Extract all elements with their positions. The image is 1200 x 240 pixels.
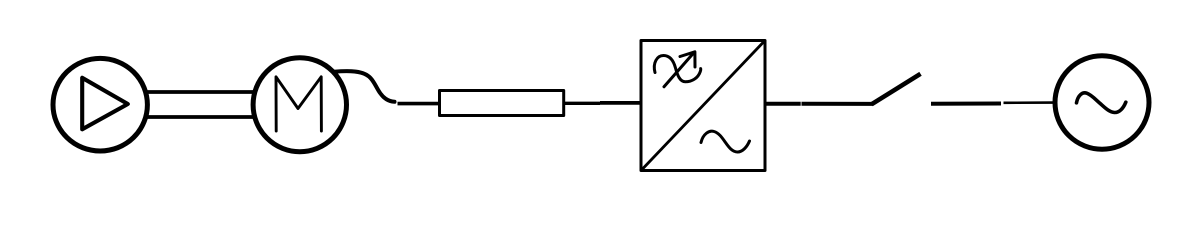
wire segment to converter (600, 101, 641, 105)
wire switch to grid (931, 102, 1001, 106)
wire curved from motor (334, 71, 395, 102)
wire segment (802, 102, 873, 106)
variable frequency arrow shaft (664, 53, 694, 87)
wire segment thin (1004, 101, 1055, 104)
frequency converter box (641, 41, 765, 171)
wire converter to switch (765, 102, 801, 106)
resistor (440, 91, 564, 116)
turbine circle (53, 58, 147, 151)
shaft coupling top line (148, 90, 256, 94)
variable frequency squiggle (654, 56, 700, 82)
turbine triangle (82, 78, 128, 130)
motor circle M (253, 58, 346, 152)
AC grid circle (1055, 56, 1149, 149)
switch blade (872, 74, 921, 105)
converter sine wave (701, 131, 750, 152)
motor letter M (276, 77, 321, 131)
AC grid sine wave (1077, 93, 1126, 113)
wire resistor to converter (564, 102, 600, 105)
arrow head (680, 52, 695, 67)
converter diagonal (642, 42, 764, 170)
wire to resistor (398, 102, 441, 106)
shaft coupling bottom line (148, 115, 256, 119)
